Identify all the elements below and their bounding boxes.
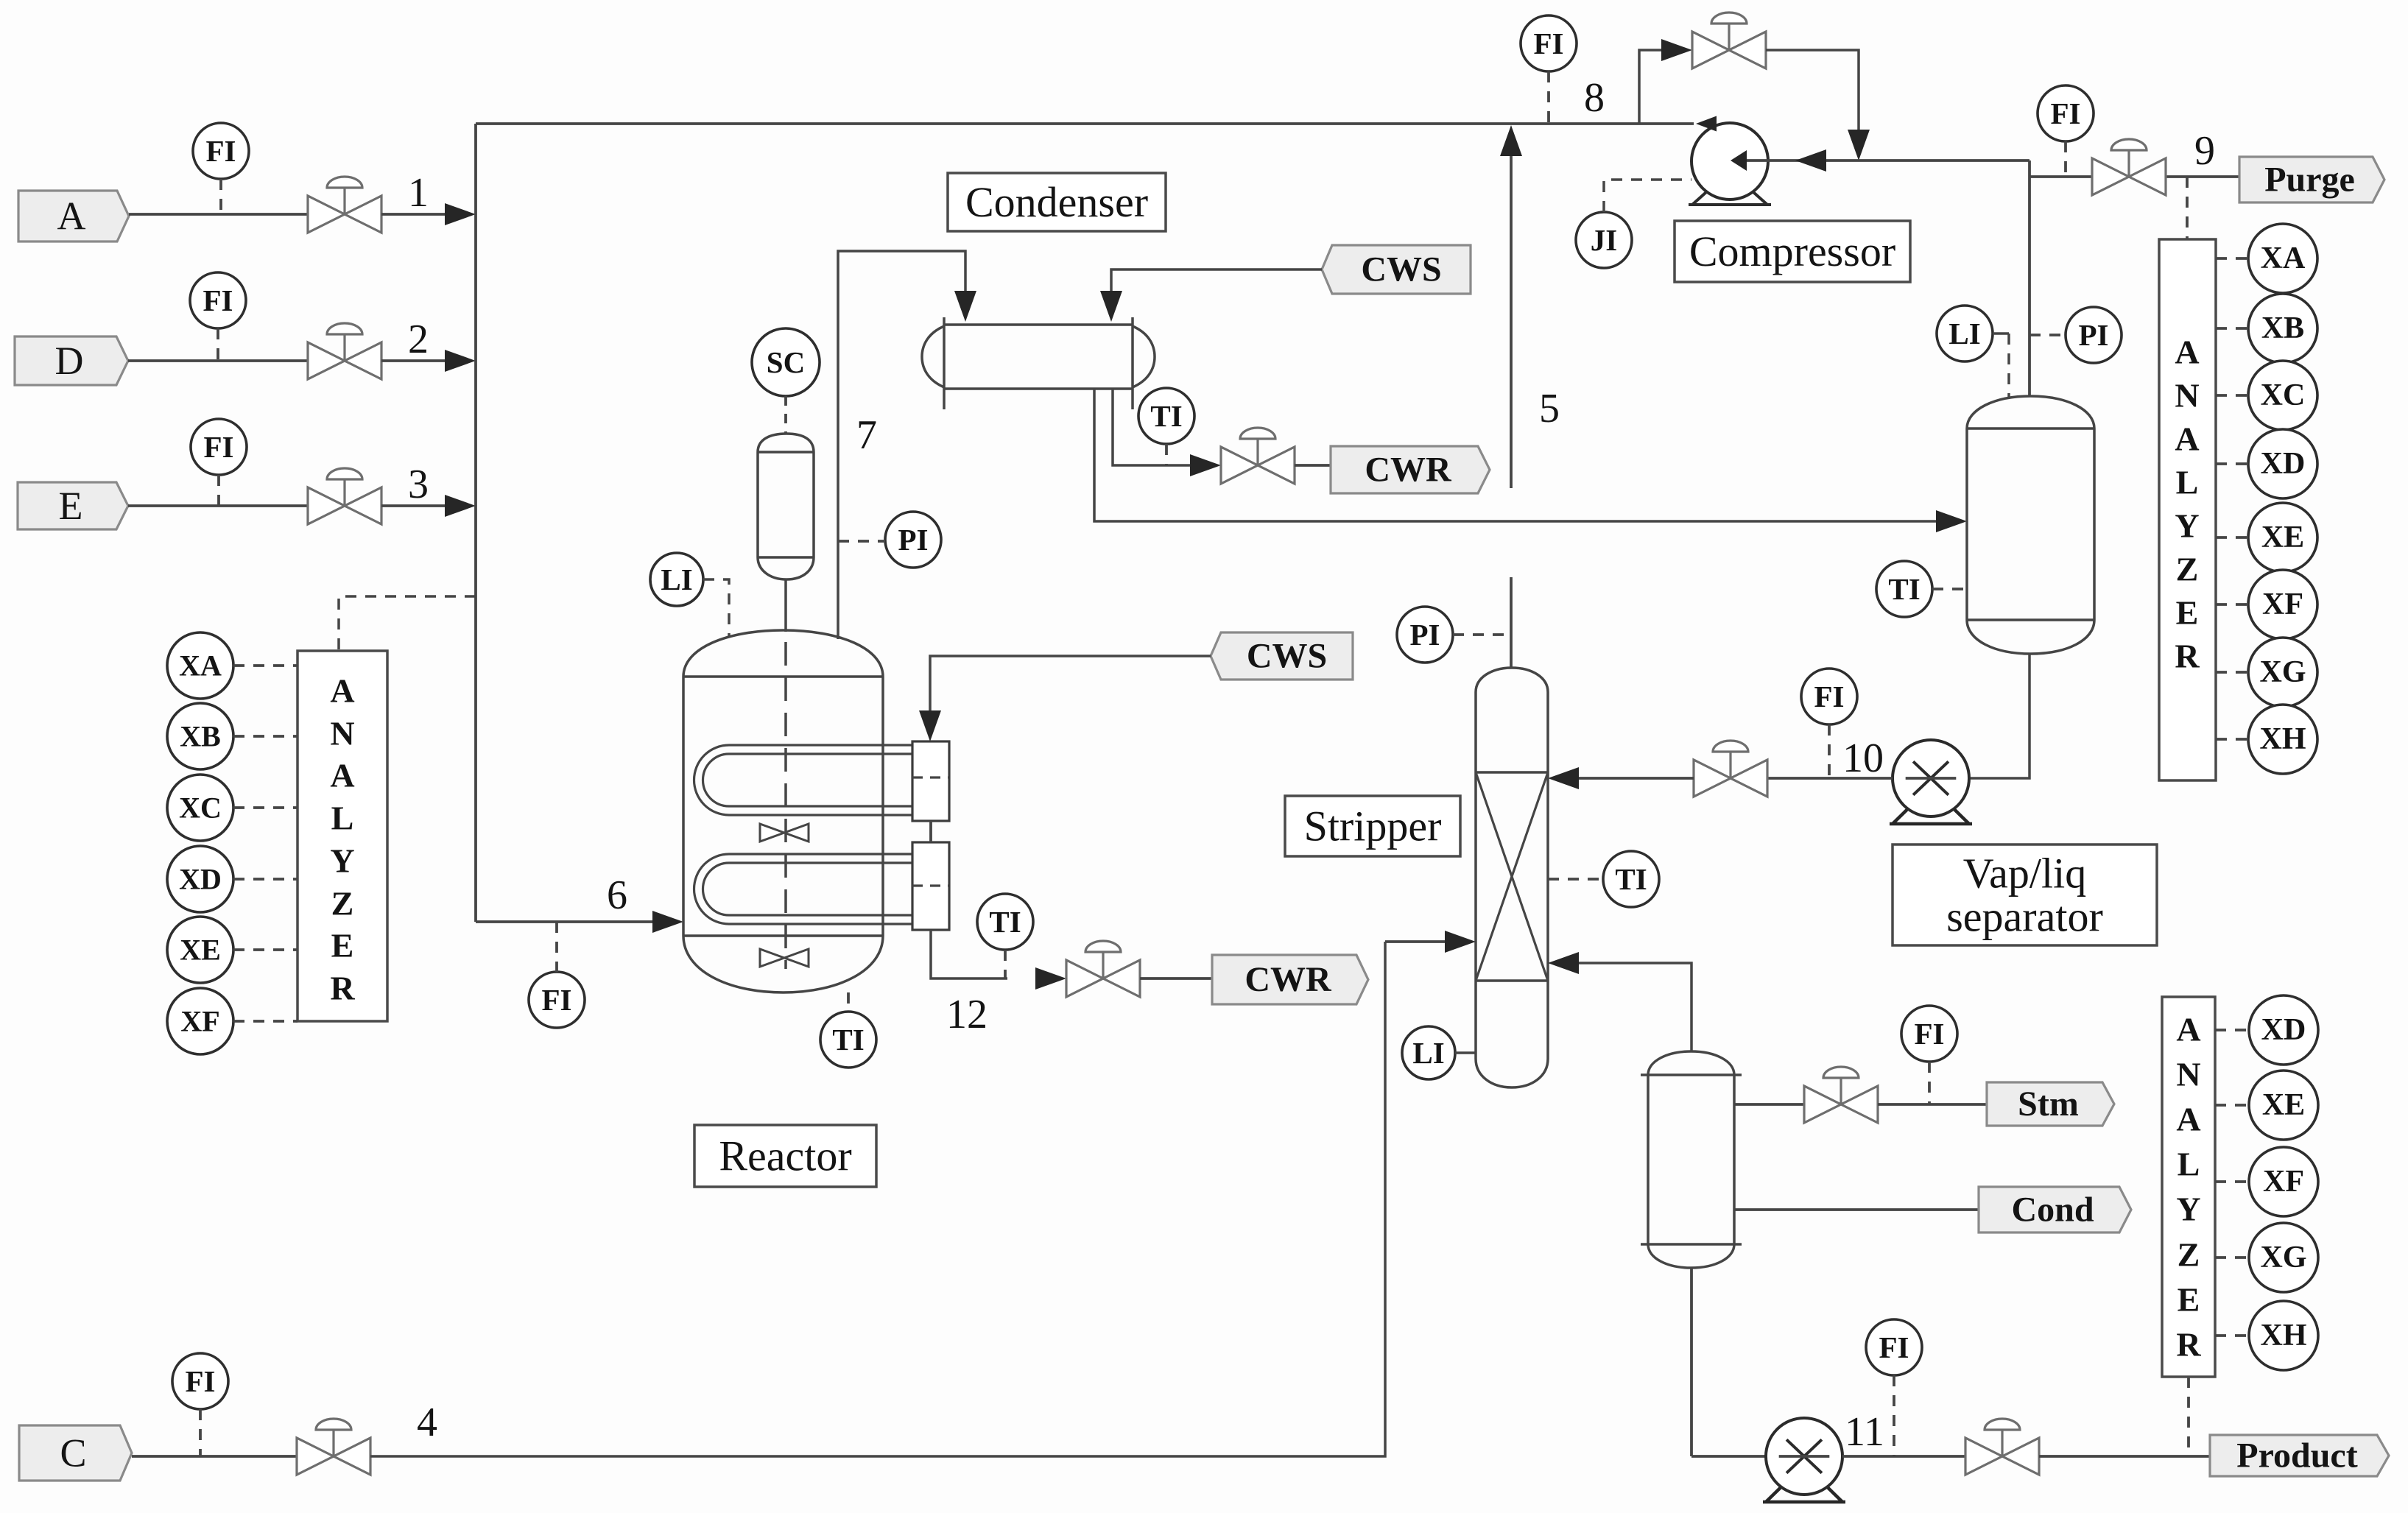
instrument FI (stream 6) [529, 972, 585, 1028]
wire valve2 to header [381, 359, 449, 362]
svg-text:XB: XB [2261, 311, 2304, 345]
reboiler vessel [1648, 1051, 1734, 1268]
svg-text:XE: XE [2262, 1088, 2305, 1122]
svg-text:TI: TI [989, 905, 1021, 939]
instrument XF (product analyzer) [2249, 1147, 2318, 1216]
reactor impeller upper [760, 824, 809, 842]
wire between coil header boxes [929, 821, 932, 842]
svg-text:E: E [2178, 1281, 2200, 1319]
instrument TI (condenser outlet) [1138, 388, 1194, 444]
wire dashed XF link [2215, 1180, 2249, 1183]
valve purge [2092, 139, 2166, 195]
wire recycle header top [476, 122, 1694, 125]
instrument XC (feed analyzer) [167, 775, 233, 841]
arrow vapour return into stripper [1548, 952, 1579, 974]
svg-text:PI: PI [2079, 318, 2109, 352]
svg-text:R: R [2176, 1326, 2201, 1364]
wire reboiler vapour return [1576, 963, 1691, 1051]
reactor vessel [683, 630, 883, 992]
wire reboiler bottoms down [1690, 1268, 1693, 1456]
svg-text:6: 6 [607, 872, 627, 918]
svg-text:FI: FI [203, 283, 233, 317]
svg-text:N: N [2175, 377, 2199, 415]
wire condenser CW outlet [1113, 389, 1193, 465]
svg-text:R: R [2175, 638, 2200, 675]
stripper packing section [1476, 771, 1548, 774]
wire dashed XD link [2215, 1029, 2249, 1031]
svg-text:N: N [330, 715, 354, 752]
tag CWR (reactor cooling return) [1212, 955, 1368, 1004]
wire FI-D dashed tap [216, 328, 219, 361]
wire reboiler bottoms to pump 11 [1691, 1455, 1766, 1458]
svg-text:XD: XD [2261, 447, 2306, 481]
arrow bypass into suction [1848, 130, 1870, 161]
pump 10 (separator bottoms) [1890, 740, 1972, 824]
wire compressor suction [1746, 159, 2029, 162]
wire dashed XD link [2216, 462, 2248, 465]
instrument XE (product analyzer) [2249, 1071, 2318, 1140]
wire stream 4 long run [370, 942, 1385, 1456]
wire separator bottoms to pump [1971, 654, 2029, 778]
wire feed E line [128, 504, 308, 507]
tag CWS (reactor cooling supply) [1211, 632, 1353, 680]
svg-text:9: 9 [2194, 128, 2215, 174]
instrument PI (separator) [2066, 307, 2122, 363]
wire TI stripper dashed [1548, 878, 1603, 881]
wire feed C line [132, 1455, 297, 1458]
wire FI-8 dashed tap [1547, 71, 1550, 124]
wire stream 6 to reactor [476, 920, 655, 923]
svg-text:FI: FI [542, 983, 572, 1017]
tag Purge [2239, 157, 2384, 202]
wire stream 7 riser to condenser [838, 251, 965, 639]
svg-text:3: 3 [408, 462, 429, 507]
wire product valve to tag [2039, 1455, 2210, 1458]
instrument JI (compressor) [1576, 212, 1632, 268]
wire FI steam dashed tap [1928, 1062, 1931, 1104]
svg-text:XE: XE [2261, 521, 2304, 554]
svg-text:XB: XB [180, 720, 221, 753]
svg-text:12: 12 [946, 992, 988, 1037]
wire pump to valve 10 [1767, 777, 1893, 780]
wire dashed XF to analyzer [233, 1020, 298, 1023]
wire FI-6 dashed tap [555, 922, 558, 972]
wire dashed XF link [2216, 603, 2248, 606]
instrument XB (feed analyzer) [167, 703, 233, 769]
wire feed D line [128, 359, 308, 362]
svg-text:XD: XD [2261, 1013, 2306, 1047]
wire LI separator dashed [1993, 332, 2009, 335]
wire dashed XD to analyzer [233, 878, 298, 881]
wire bypass valve to drop [1766, 50, 1859, 133]
instrument FI (feed A) [193, 123, 249, 179]
wire CWS to reactor coil [930, 656, 1211, 713]
arrow stream 6 into reactor [652, 911, 683, 933]
svg-text:LI: LI [1948, 317, 1980, 350]
feed tag E [18, 482, 128, 529]
svg-text:LI: LI [1412, 1036, 1444, 1070]
wire feed header vertical [474, 124, 477, 922]
wire dashed XE link [2215, 1104, 2249, 1107]
svg-text:Y: Y [2175, 507, 2199, 545]
wire PI separator dashed [2029, 334, 2066, 336]
svg-text:XF: XF [2262, 588, 2303, 621]
arrow compressor discharge into header [1696, 116, 1717, 132]
label box Reactor [694, 1125, 876, 1187]
svg-text:A: A [2176, 1101, 2200, 1138]
instrument XE (feed analyzer) [167, 917, 233, 983]
svg-text:Y: Y [2176, 1191, 2200, 1228]
instrument FI (feed D) [190, 272, 246, 328]
wire dashed XA link [2216, 257, 2248, 260]
valve 1 (feed A) [308, 177, 381, 233]
wire valve 10 to stripper [1577, 777, 1694, 780]
arrow into separator [1936, 510, 1967, 532]
svg-text:XD: XD [179, 863, 222, 896]
wire PI reactor dashed [838, 540, 885, 543]
condenser shell [944, 323, 1133, 326]
svg-text:TI: TI [1888, 572, 1920, 606]
svg-text:FI: FI [204, 430, 234, 464]
instrument XD (feed analyzer) [167, 846, 233, 912]
feed tag A [18, 191, 129, 241]
svg-text:Reactor: Reactor [719, 1132, 851, 1180]
wire TI coolant dashed tap [1004, 950, 1007, 978]
wire steam line [1734, 1103, 1804, 1106]
instrument XF (feed analyzer) [167, 988, 233, 1054]
instrument XA (purge analyzer) [2248, 224, 2317, 293]
wire stream 5 riser upper [1510, 153, 1513, 488]
arrow into bypass valve [1661, 39, 1692, 61]
svg-text:Compressor: Compressor [1689, 228, 1895, 275]
reactor impeller lower [760, 949, 809, 967]
wire dashed XC link [2216, 394, 2248, 397]
svg-text:11: 11 [1845, 1409, 1884, 1455]
svg-text:Y: Y [330, 842, 354, 880]
wire JI dashed link [1604, 180, 1691, 212]
svg-text:CWS: CWS [1247, 637, 1327, 676]
label box Stripper [1285, 796, 1460, 856]
instrument FI (steam) [1901, 1006, 1957, 1062]
analyzer box (product) [2162, 997, 2215, 1377]
svg-text:E: E [59, 484, 83, 528]
svg-text:Z: Z [2178, 1236, 2200, 1274]
label box Condenser [948, 173, 1166, 231]
wire steam valve to tag [1878, 1103, 1987, 1106]
wire condensate line [1734, 1208, 1979, 1211]
svg-text:8: 8 [1584, 75, 1605, 121]
feed tag D [15, 336, 128, 385]
svg-text:CWR: CWR [1365, 451, 1452, 490]
svg-text:10: 10 [1842, 736, 1884, 781]
instrument TI (reactor coolant outlet) [977, 894, 1033, 950]
svg-text:FI: FI [1814, 680, 1845, 713]
instrument XH (purge analyzer) [2248, 705, 2317, 774]
reactor agitator shaft [784, 579, 787, 632]
instrument LI (reactor) [650, 553, 703, 606]
reactor coil header box lower [912, 842, 949, 930]
svg-text:Cond: Cond [2011, 1191, 2094, 1230]
svg-text:XG: XG [2261, 1241, 2307, 1274]
arrow to condenser CWR valve [1190, 454, 1221, 476]
svg-text:E: E [331, 927, 354, 964]
wire FI-C dashed tap [199, 1409, 202, 1456]
svg-text:Stripper: Stripper [1304, 803, 1442, 850]
valve compressor bypass [1692, 13, 1766, 68]
svg-text:Z: Z [2176, 551, 2199, 588]
svg-text:Vap/liq: Vap/liq [1963, 849, 2087, 897]
valve 3 (feed E) [308, 468, 381, 524]
wire FI-10 dashed tap [1828, 724, 1831, 778]
wire TI separator dashed [1932, 588, 1967, 590]
svg-text:FI: FI [186, 1364, 216, 1398]
instrument XB (purge analyzer) [2248, 294, 2317, 363]
svg-text:TI: TI [832, 1023, 864, 1057]
valve product [1965, 1419, 2039, 1475]
svg-text:Z: Z [331, 885, 354, 923]
arrow stream 10 into stripper [1548, 767, 1579, 789]
instrument FI (product) [1866, 1319, 1922, 1375]
wire dashed XA to analyzer [233, 664, 298, 667]
svg-text:A: A [57, 194, 86, 239]
wire valve1 to header [381, 213, 449, 216]
svg-text:TI: TI [1615, 862, 1647, 896]
svg-text:FI: FI [206, 134, 236, 168]
svg-text:N: N [2176, 1056, 2200, 1093]
svg-text:E: E [2176, 594, 2199, 632]
svg-text:L: L [2178, 1146, 2200, 1183]
valve 2 (feed D) [308, 323, 381, 379]
arrow suction into compressor centre [1731, 150, 1747, 171]
svg-text:A: A [330, 672, 354, 710]
svg-text:XA: XA [2261, 241, 2306, 275]
wire recycle bypass riser [1639, 50, 1666, 124]
instrument FI (stream 10) [1801, 669, 1857, 724]
wire dashed XH link [2215, 1334, 2249, 1337]
wire LI stripper link [1455, 1051, 1476, 1054]
arrow CWS into coil box [919, 710, 941, 741]
svg-text:SC: SC [767, 345, 805, 379]
wire condensed stream to separator [1094, 389, 1939, 521]
stripper column [1476, 668, 1548, 1087]
svg-text:XH: XH [2260, 722, 2306, 756]
instrument FI (stream 8) [1521, 15, 1577, 71]
instrument FI (feed E) [191, 419, 247, 475]
compressor body [1689, 123, 1771, 205]
reactor coil header box upper [912, 741, 949, 821]
svg-text:Condenser: Condenser [965, 178, 1148, 226]
svg-text:PI: PI [898, 523, 929, 557]
svg-text:TI: TI [1150, 399, 1182, 433]
instrument XA (feed analyzer) [167, 632, 233, 699]
analyzer box (purge) [2159, 239, 2216, 780]
arrow feed E into header [445, 495, 476, 517]
instrument XC (purge analyzer) [2248, 361, 2317, 430]
wire dashed purge sample to analyzer [2186, 177, 2189, 239]
tag Product [2210, 1435, 2389, 1476]
tag CWR (condenser cooling return) [1331, 446, 1490, 493]
instrument FI (feed C) [172, 1353, 228, 1409]
instrument XH (product analyzer) [2249, 1301, 2318, 1370]
wire FI product dashed tap [1893, 1375, 1895, 1456]
svg-text:XH: XH [2261, 1319, 2307, 1352]
svg-text:D: D [55, 339, 84, 383]
svg-text:JI: JI [1591, 223, 1617, 257]
svg-text:5: 5 [1539, 386, 1560, 431]
valve condenser CWR [1221, 428, 1295, 484]
wire dashed XB link [2216, 327, 2248, 330]
svg-text:A: A [2176, 1011, 2200, 1048]
svg-text:L: L [331, 800, 354, 837]
wire dashed XG link [2216, 671, 2248, 674]
wire dashed XE link [2216, 536, 2248, 539]
svg-text:XE: XE [180, 934, 221, 967]
svg-text:1: 1 [408, 170, 429, 216]
arrow feed A into header [445, 203, 476, 225]
arrow stream 5 into header [1500, 125, 1522, 156]
instrument TI (reactor bottom) [820, 1012, 876, 1068]
instrument LI (separator) [1937, 306, 1993, 362]
instrument TI (separator) [1876, 561, 1932, 617]
svg-text:A: A [2175, 334, 2199, 371]
wire FI-A dashed tap [219, 179, 222, 214]
wire CWS to condenser [1111, 269, 1322, 295]
tag Stm [1987, 1082, 2114, 1126]
svg-text:PI: PI [1410, 618, 1440, 652]
instrument XG (purge analyzer) [2248, 638, 2317, 707]
wire coil outlet stream 12 [931, 930, 1007, 978]
wire pump 11 to product valve [1842, 1455, 1965, 1458]
wire purge line [2029, 175, 2239, 178]
wire LI reactor dashed [703, 579, 729, 638]
wire PI stripper dashed [1453, 633, 1511, 636]
arrow stream 4 into stripper [1445, 931, 1476, 953]
svg-text:7: 7 [856, 412, 877, 458]
wire FI-E dashed tap [217, 475, 220, 506]
wire SC dashed link [784, 396, 787, 434]
svg-text:XA: XA [179, 649, 222, 683]
wire dashed XG link [2215, 1256, 2249, 1259]
instrument PI (stripper) [1397, 607, 1453, 663]
label box Compressor [1675, 221, 1910, 282]
wire dashed sample line to feed analyzer [339, 596, 476, 651]
valve steam [1804, 1067, 1878, 1123]
wire feed A line [129, 213, 308, 216]
wire dashed product sample to analyzer [2187, 1377, 2190, 1456]
reactor cooling coil upper [694, 745, 921, 815]
valve reactor CWR [1066, 941, 1140, 997]
analyzer box (feed) [298, 651, 387, 1021]
instrument XG (product analyzer) [2249, 1223, 2318, 1292]
instrument XD (purge analyzer) [2248, 429, 2317, 498]
svg-text:FI: FI [1915, 1017, 1945, 1051]
valve stream 10 [1694, 741, 1767, 797]
feed tag C [19, 1425, 132, 1481]
svg-text:XF: XF [2263, 1165, 2304, 1199]
svg-text:C: C [60, 1431, 86, 1475]
reactor cooling coil lower [694, 854, 921, 924]
svg-text:Stm: Stm [2018, 1085, 2079, 1124]
svg-text:R: R [330, 970, 355, 1007]
label box Vap/liq separator [1893, 844, 2157, 945]
arrow stream 7 into condenser [954, 291, 976, 322]
wire TI condenser dashed tap [1165, 444, 1168, 465]
wire dashed XB to analyzer [233, 735, 298, 738]
svg-text:L: L [2176, 464, 2199, 501]
svg-text:CWS: CWS [1361, 250, 1441, 289]
tag CWS (condenser cooling supply) [1322, 245, 1471, 294]
svg-text:CWR: CWR [1245, 960, 1332, 999]
wire TI reactor bottom dashed [847, 992, 850, 1012]
arrow suction mid-line [1795, 149, 1826, 172]
svg-text:A: A [2175, 420, 2199, 458]
svg-text:XC: XC [179, 791, 222, 825]
svg-text:XF: XF [180, 1005, 219, 1038]
wire stream 4 feed into stripper [1385, 940, 1448, 943]
instrument LI (stripper) [1402, 1026, 1455, 1079]
pump 11 (product) [1763, 1418, 1845, 1502]
wire dashed XH link [2216, 738, 2248, 741]
svg-text:FI: FI [1879, 1330, 1909, 1364]
instrument PI (reactor) [885, 512, 941, 568]
instrument FI (purge) [2038, 85, 2094, 141]
arrow stream 12 to valve [1035, 967, 1066, 990]
wire FI purge dashed tap [2064, 141, 2067, 177]
svg-text:FI: FI [2051, 96, 2081, 130]
wire valve to CWR tag [1140, 977, 1212, 980]
svg-text:separator: separator [1946, 893, 2103, 941]
valve 4 (feed C) [297, 1419, 370, 1475]
svg-text:Purge: Purge [2264, 161, 2355, 200]
separator riser to suction [2028, 161, 2031, 396]
wire dashed XC to analyzer [233, 806, 298, 809]
svg-text:LI: LI [661, 562, 692, 596]
instrument XD (product analyzer) [2249, 995, 2318, 1065]
svg-text:XG: XG [2260, 655, 2306, 689]
svg-text:Product: Product [2236, 1436, 2357, 1475]
wire dashed XE to analyzer [233, 948, 298, 951]
wire valve3 to header [381, 504, 449, 507]
arrow CWS into condenser [1100, 291, 1122, 322]
wire valve to CWR tag [1295, 464, 1331, 467]
instrument SC (agitator speed) [752, 328, 820, 396]
tag Cond [1979, 1187, 2131, 1232]
instrument XF (purge analyzer) [2248, 570, 2317, 639]
instrument XE (purge analyzer) [2248, 503, 2317, 572]
reactor vapour pot vessel [758, 434, 814, 579]
separator vessel [1967, 396, 2094, 654]
wire stream 5 riser lower [1510, 577, 1513, 668]
svg-text:4: 4 [417, 1400, 437, 1445]
arrow feed D into header [445, 350, 476, 372]
svg-text:XC: XC [2261, 378, 2306, 412]
instrument TI (stripper) [1603, 851, 1659, 907]
svg-text:2: 2 [408, 317, 429, 362]
svg-text:A: A [330, 757, 354, 794]
svg-text:FI: FI [1534, 27, 1564, 60]
